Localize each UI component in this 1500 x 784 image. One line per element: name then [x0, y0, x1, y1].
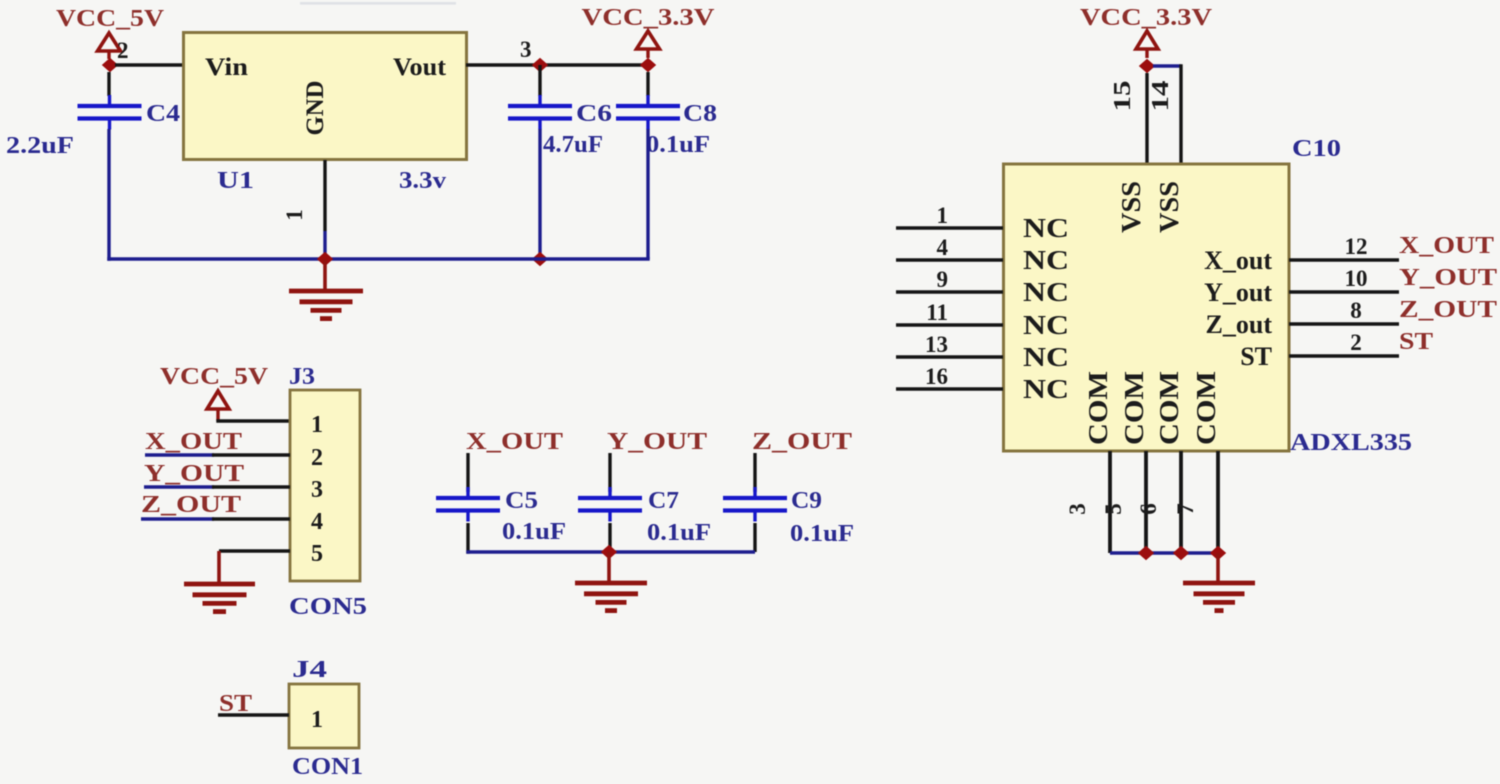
wire U1 GND pin — [323, 160, 326, 259]
label C7 — [648, 488, 679, 514]
svg-text:5: 5 — [1101, 503, 1126, 515]
wire Z_OUT to J3 pin 4 — [141, 517, 290, 520]
IC pin name NC (pin 13) — [1023, 342, 1069, 372]
power symbol VCC_5V — [98, 33, 121, 59]
svg-text:NC: NC — [1023, 342, 1069, 372]
designator U1 — [217, 168, 254, 194]
power VCC_5V net label — [56, 6, 165, 32]
pin number 1 — [937, 203, 949, 228]
svg-text:0.1uF: 0.1uF — [502, 519, 566, 545]
part name ADXL335 — [1290, 430, 1412, 456]
IC pin name COM (pin 5, rotated) — [1119, 371, 1149, 445]
power symbol VCC_3.3V at IC — [1136, 31, 1158, 58]
svg-text:NC: NC — [1023, 213, 1069, 243]
wire IC pin 4 — [896, 258, 1003, 261]
wire C4 to ground rail — [107, 129, 110, 261]
svg-text:C10: C10 — [1292, 136, 1341, 162]
junction dot at IC VCC node — [1139, 59, 1155, 73]
svg-text:7: 7 — [1173, 503, 1198, 515]
pin number 9 — [937, 267, 949, 292]
junction dot at GND rail node — [317, 252, 333, 266]
power symbol VCC_5V at J3 — [207, 391, 229, 421]
ground rail wire — [107, 257, 649, 260]
svg-text:8: 8 — [1350, 298, 1362, 323]
svg-text:VSS: VSS — [1154, 181, 1184, 233]
ground symbol below U1 — [289, 259, 363, 319]
svg-text:COM: COM — [1119, 371, 1149, 445]
IC pin name Y_out — [1204, 278, 1272, 307]
svg-text:16: 16 — [925, 364, 948, 389]
connector J3 body — [290, 390, 360, 581]
accelerometer IC C10 body — [1004, 164, 1290, 451]
pin number 2 of U1 Vin — [117, 38, 129, 63]
svg-text:C4: C4 — [146, 101, 180, 127]
wire VCC node to pin 14 — [1153, 64, 1181, 164]
svg-text:VCC_3.3V: VCC_3.3V — [1080, 5, 1213, 31]
pin number 1 of U1 GND (rotated) — [282, 209, 307, 221]
svg-text:VCC_3.3V: VCC_3.3V — [582, 5, 716, 31]
pin number 3 of U1 Vout — [520, 37, 532, 62]
svg-text:U1: U1 — [217, 168, 254, 194]
pin number 5 (rotated) — [1101, 503, 1126, 515]
net label Y_OUT — [1399, 265, 1497, 291]
svg-text:Vin: Vin — [205, 54, 248, 81]
wire IC pin 2 — [1289, 354, 1399, 357]
svg-text:COM: COM — [1083, 371, 1113, 445]
svg-text:1: 1 — [311, 707, 323, 733]
svg-text:11: 11 — [926, 300, 948, 325]
value 0.1uF of C9 — [790, 521, 854, 547]
power symbol VCC_3.3V — [637, 31, 660, 58]
pin number 7 (rotated) — [1173, 503, 1198, 515]
pin number 6 (rotated) — [1136, 503, 1161, 515]
svg-text:3: 3 — [1065, 503, 1090, 515]
svg-text:10: 10 — [1345, 266, 1368, 291]
label C9 — [791, 488, 822, 514]
svg-text:4: 4 — [937, 235, 949, 260]
svg-text:ST: ST — [1399, 329, 1433, 355]
svg-text:ST: ST — [219, 691, 252, 717]
svg-text:C5: C5 — [505, 488, 538, 514]
label C6 — [576, 101, 612, 127]
junction dot at C6/rail node — [532, 252, 548, 266]
net label Z_OUT — [1399, 297, 1497, 323]
wire IC pin 13 — [896, 355, 1003, 358]
wire X_OUT down to C5 — [466, 453, 469, 492]
label C8 — [683, 101, 717, 127]
designator J3 — [289, 364, 315, 390]
J4 pin number 1 — [311, 707, 323, 733]
J3 pin number 5 — [311, 541, 323, 567]
designator C10 — [1292, 136, 1341, 162]
J3 pin number 4 — [311, 509, 323, 535]
wire C8 to ground rail corner — [646, 129, 649, 259]
svg-text:GND: GND — [302, 81, 329, 136]
wire IC pin 12 — [1289, 258, 1399, 261]
value 2.2uF of C4 — [6, 133, 74, 159]
svg-text:0.1uF: 0.1uF — [646, 132, 710, 158]
ground symbol below caps — [575, 552, 647, 611]
wire IC pin 3 — [1108, 451, 1112, 553]
value 0.1uF of C5 — [502, 519, 566, 545]
svg-text:C7: C7 — [648, 488, 679, 514]
power VCC_3.3V net label at IC — [1080, 5, 1213, 31]
designator CON1 — [292, 754, 363, 780]
svg-text:6: 6 — [1136, 503, 1161, 515]
svg-text:2: 2 — [1350, 330, 1362, 355]
svg-text:3.3v: 3.3v — [399, 168, 446, 194]
power VCC_3.3V net label — [582, 5, 716, 31]
IC pin name NC (pin 4) — [1023, 245, 1069, 275]
svg-text:ADXL335: ADXL335 — [1290, 430, 1412, 456]
label C5 — [505, 488, 538, 514]
IC pin name COM (pin 7, rotated) — [1191, 371, 1221, 445]
wire IC pin 6 — [1179, 451, 1183, 553]
capacitor C8 — [616, 95, 680, 130]
svg-text:Z_OUT: Z_OUT — [1399, 297, 1497, 323]
wire C9 to ground bus — [753, 523, 756, 552]
J3 pin number 3 — [311, 477, 323, 503]
IC pin name VSS (pin 14, rotated) — [1154, 181, 1184, 233]
capacitor C4 — [78, 95, 142, 130]
IC pin name COM (pin 3, rotated) — [1083, 371, 1113, 445]
IC pin name COM (pin 6, rotated) — [1154, 371, 1184, 445]
faint artifact line at top edge — [300, 2, 456, 5]
svg-text:J4: J4 — [292, 657, 327, 683]
svg-text:14: 14 — [1148, 81, 1174, 112]
U1 pin name Vout — [393, 54, 447, 81]
wire Z_OUT down to C9 — [753, 453, 756, 492]
svg-text:4: 4 — [311, 509, 323, 535]
pin number 16 — [925, 364, 948, 389]
svg-text:X_out: X_out — [1204, 246, 1272, 275]
svg-text:VSS: VSS — [1116, 181, 1146, 233]
wire VCC node to pin 15 — [1145, 73, 1148, 164]
junction dot pin 6 on bus — [1173, 546, 1189, 560]
wire VCC_5V to U1 Vin — [115, 63, 184, 66]
svg-text:Y_out: Y_out — [1204, 278, 1272, 307]
power VCC_5V net label at J3 — [160, 364, 269, 390]
svg-text:Z_OUT: Z_OUT — [752, 429, 852, 455]
net label ST — [1399, 329, 1433, 355]
value 4.7uF of C6 — [543, 132, 603, 158]
wire C6 to ground rail — [538, 129, 541, 261]
net label Z_OUT at J3 — [141, 492, 241, 518]
svg-text:COM: COM — [1191, 371, 1221, 445]
wire IC pin 10 — [1289, 290, 1399, 293]
svg-text:Z_OUT: Z_OUT — [141, 492, 241, 518]
junction dot at Vout/C6 node — [532, 58, 548, 72]
svg-text:VCC_5V: VCC_5V — [160, 364, 269, 390]
wire IC pin 9 — [896, 290, 1003, 293]
junction dot pin 7 on bus — [1210, 546, 1226, 560]
pin number 11 — [926, 300, 948, 325]
connector J4 body — [289, 684, 359, 748]
svg-text:0.1uF: 0.1uF — [790, 521, 854, 547]
svg-text:VCC_5V: VCC_5V — [56, 6, 165, 32]
svg-text:CON1: CON1 — [292, 754, 363, 780]
IC pin name NC (pin 16) — [1023, 374, 1069, 404]
svg-text:1: 1 — [311, 412, 323, 438]
svg-text:Y_OUT: Y_OUT — [607, 429, 707, 455]
svg-text:X_OUT: X_OUT — [1399, 233, 1494, 259]
wire IC pin 5 — [1144, 451, 1148, 553]
svg-text:Vout: Vout — [393, 54, 447, 81]
wire IC pin 16 — [896, 387, 1003, 390]
U1 pin name Vin — [205, 54, 248, 81]
svg-text:3: 3 — [311, 477, 323, 503]
svg-text:2: 2 — [117, 38, 129, 63]
wire node down to C4 — [107, 72, 110, 96]
wire U1 Vout to VCC_3.3V node — [466, 63, 648, 66]
pin number 12 — [1345, 234, 1368, 259]
wire Y_OUT to J3 pin 3 — [144, 485, 290, 488]
svg-text:13: 13 — [925, 332, 948, 357]
wire Y_OUT down to C7 — [608, 453, 611, 492]
svg-text:J3: J3 — [289, 364, 315, 390]
svg-text:Y_OUT: Y_OUT — [144, 461, 244, 487]
wire X_OUT to J3 pin 2 — [145, 453, 290, 456]
wire IC pin 7 — [1216, 451, 1220, 553]
net label X_OUT at C5 — [466, 429, 563, 455]
net label X_OUT at J3 — [145, 429, 242, 455]
pin number 8 — [1350, 298, 1362, 323]
svg-text:4.7uF: 4.7uF — [543, 132, 603, 158]
U1 pin name GND (rotated) — [302, 81, 329, 136]
ground bus wire — [466, 550, 755, 553]
svg-text:COM: COM — [1154, 371, 1184, 445]
ground symbol below J3 — [184, 551, 255, 612]
net label Z_OUT at C9 — [752, 429, 852, 455]
designator CON5 — [289, 594, 367, 620]
svg-text:1: 1 — [282, 209, 307, 221]
net label ST at J4 — [219, 691, 252, 717]
value 3.3v of U1 — [399, 168, 446, 194]
capacitor C5 — [436, 487, 500, 522]
svg-text:9: 9 — [937, 267, 949, 292]
IC pin name Z_out — [1206, 310, 1273, 339]
capacitor C9 — [723, 487, 787, 522]
IC pin name ST — [1240, 342, 1272, 371]
svg-text:NC: NC — [1023, 245, 1069, 275]
pin number 13 — [925, 332, 948, 357]
wire VCC_5V to J3 pin 1 — [216, 419, 290, 422]
pin number 10 — [1345, 266, 1368, 291]
svg-text:NC: NC — [1023, 374, 1069, 404]
IC ground bus wire — [1110, 551, 1218, 554]
svg-text:C8: C8 — [683, 101, 717, 127]
pin number 4 — [937, 235, 949, 260]
svg-text:12: 12 — [1345, 234, 1368, 259]
IC pin name NC (pin 11) — [1023, 310, 1069, 340]
wire C5 to ground bus — [466, 523, 469, 554]
svg-text:Y_OUT: Y_OUT — [1399, 265, 1497, 291]
svg-text:3: 3 — [520, 37, 532, 62]
svg-text:NC: NC — [1023, 277, 1069, 307]
svg-text:X_OUT: X_OUT — [466, 429, 563, 455]
pin number 2 — [1350, 330, 1362, 355]
J3 pin number 2 — [311, 445, 323, 471]
wire ST to J4 pin 1 — [218, 713, 289, 716]
svg-text:5: 5 — [311, 541, 323, 567]
IC pin name VSS (pin 15, rotated) — [1116, 181, 1146, 233]
wire J3 pin 5 to ground — [219, 549, 290, 552]
svg-text:ST: ST — [1240, 342, 1272, 371]
svg-text:C9: C9 — [791, 488, 822, 514]
designator J4 — [292, 657, 327, 683]
svg-text:X_OUT: X_OUT — [145, 429, 242, 455]
op-amp regulator U1 body — [184, 33, 467, 160]
pin number 14 (rotated) — [1148, 81, 1174, 112]
svg-text:Z_out: Z_out — [1206, 310, 1273, 339]
net label Y_OUT at J3 — [144, 461, 244, 487]
svg-text:2.2uF: 2.2uF — [6, 133, 74, 159]
net label X_OUT — [1399, 233, 1494, 259]
wire node down to C6 — [538, 65, 541, 96]
IC pin name NC (pin 1) — [1023, 213, 1069, 243]
svg-text:1: 1 — [937, 203, 949, 228]
label C4 — [146, 101, 180, 127]
value 0.1uF of C8 — [646, 132, 710, 158]
svg-text:0.1uF: 0.1uF — [647, 520, 711, 546]
wire C7 to ground bus — [608, 523, 611, 552]
wire IC pin 8 — [1289, 322, 1399, 325]
svg-text:2: 2 — [311, 445, 323, 471]
value 0.1uF of C7 — [647, 520, 711, 546]
junction dot on ground bus — [601, 545, 617, 559]
svg-text:15: 15 — [1110, 81, 1136, 112]
capacitor C7 — [578, 487, 642, 522]
wire IC pin 1 — [896, 226, 1003, 229]
capacitor C6 — [508, 95, 572, 130]
pin number 15 (rotated) — [1110, 81, 1136, 112]
ground symbol below IC — [1183, 553, 1255, 611]
pin number 3 (rotated) — [1065, 503, 1090, 515]
net label Y_OUT at C7 — [607, 429, 707, 455]
junction dot at VCC_5V node — [102, 58, 118, 72]
wire IC pin 11 — [896, 323, 1003, 326]
junction dot pin 5 on bus — [1138, 546, 1154, 560]
svg-text:NC: NC — [1023, 310, 1069, 340]
IC pin name X_out — [1204, 246, 1272, 275]
junction dot at VCC_3.3V node — [640, 58, 656, 72]
svg-text:CON5: CON5 — [289, 594, 367, 620]
IC pin name NC (pin 9) — [1023, 277, 1069, 307]
svg-text:C6: C6 — [576, 101, 612, 127]
wire node down to C8 — [646, 72, 649, 96]
J3 pin number 1 — [311, 412, 323, 438]
